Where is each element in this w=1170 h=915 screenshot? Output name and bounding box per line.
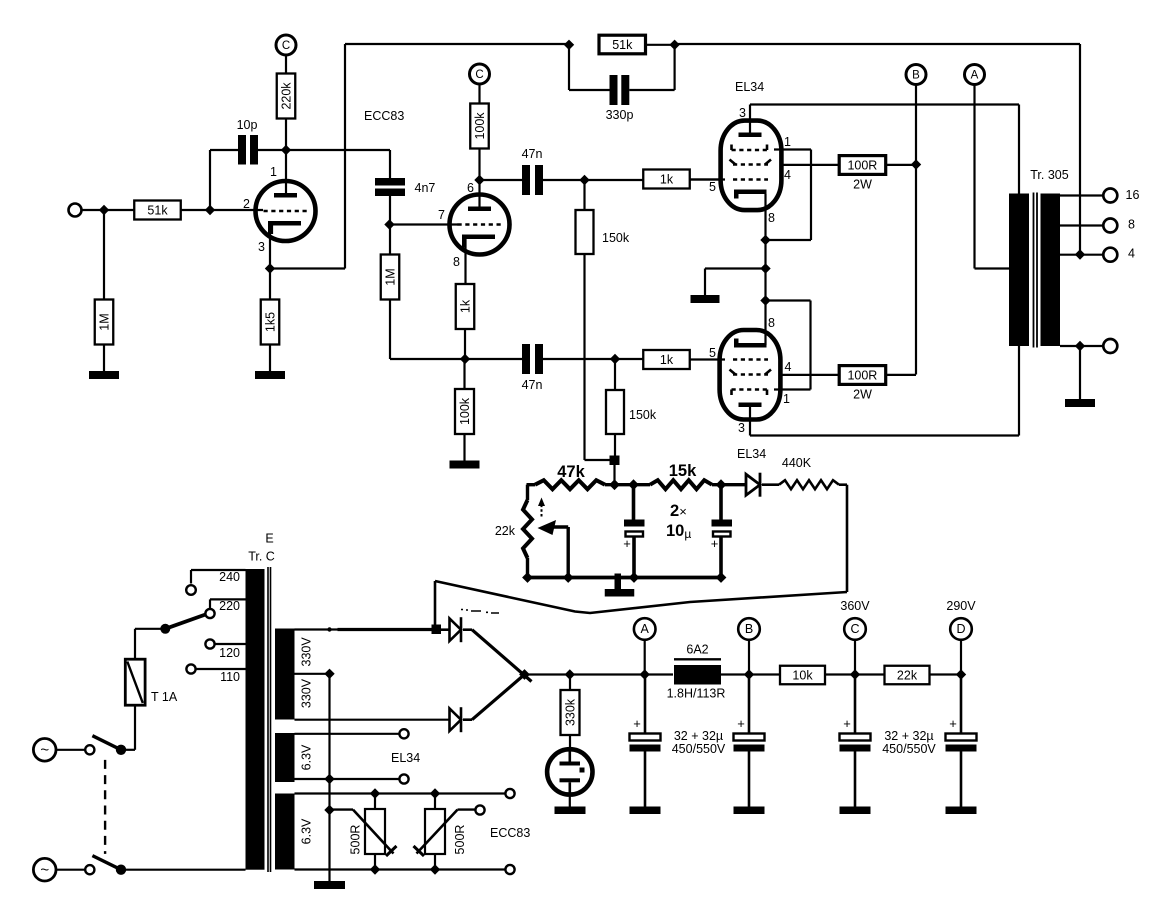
- svg-text:150k: 150k: [602, 231, 630, 245]
- svg-text:8: 8: [1128, 218, 1135, 232]
- svg-text:47k: 47k: [557, 463, 585, 481]
- svg-text:4n7: 4n7: [415, 181, 436, 195]
- svg-text:8: 8: [453, 255, 460, 269]
- svg-text:51k: 51k: [612, 38, 633, 52]
- svg-text:+: +: [711, 536, 719, 551]
- svg-text:+: +: [633, 716, 641, 731]
- svg-text:120: 120: [219, 646, 240, 660]
- svg-text:16: 16: [1126, 188, 1140, 202]
- svg-text:2W: 2W: [853, 388, 872, 402]
- svg-text:450/550V: 450/550V: [882, 742, 936, 756]
- svg-text:1M: 1M: [97, 313, 111, 330]
- svg-text:100k: 100k: [473, 112, 487, 140]
- svg-text:32 + 32µ: 32 + 32µ: [674, 729, 723, 743]
- svg-text:240: 240: [219, 570, 240, 584]
- svg-text:6: 6: [467, 181, 474, 195]
- svg-text:100R: 100R: [847, 368, 877, 382]
- svg-text:500R: 500R: [349, 825, 363, 855]
- svg-text:220: 220: [219, 599, 240, 613]
- svg-text:E: E: [265, 532, 273, 546]
- svg-text:C: C: [850, 622, 859, 636]
- svg-text:330V: 330V: [300, 678, 314, 708]
- svg-text:100R: 100R: [847, 158, 877, 172]
- svg-text:A: A: [971, 70, 979, 82]
- svg-text:~: ~: [40, 861, 49, 878]
- svg-text:1: 1: [270, 165, 277, 179]
- svg-text:D: D: [956, 622, 965, 636]
- svg-text:47n: 47n: [522, 378, 543, 392]
- svg-text:100k: 100k: [458, 397, 472, 425]
- svg-text:15k: 15k: [669, 462, 697, 480]
- svg-text:450/550V: 450/550V: [672, 742, 726, 756]
- svg-text:3: 3: [258, 240, 265, 254]
- svg-text:500R: 500R: [453, 825, 467, 855]
- svg-text:~: ~: [40, 742, 49, 759]
- svg-text:C: C: [282, 40, 290, 52]
- svg-text:4: 4: [1128, 247, 1135, 261]
- svg-text:A: A: [641, 622, 650, 636]
- svg-text:ECC83: ECC83: [364, 109, 404, 123]
- svg-text:1k5: 1k5: [263, 312, 277, 332]
- svg-text:32 + 32µ: 32 + 32µ: [884, 729, 933, 743]
- svg-text:22k: 22k: [897, 668, 918, 682]
- svg-text:22k: 22k: [495, 524, 516, 538]
- svg-text:1k: 1k: [660, 172, 674, 186]
- svg-text:6.3V: 6.3V: [300, 818, 314, 844]
- svg-text:4: 4: [785, 360, 792, 374]
- svg-text:EL34: EL34: [391, 751, 420, 765]
- svg-text:1: 1: [783, 392, 790, 406]
- svg-text:B: B: [745, 622, 753, 636]
- svg-text:290V: 290V: [946, 599, 976, 613]
- svg-text:2W: 2W: [853, 178, 872, 192]
- svg-text:EL34: EL34: [737, 447, 766, 461]
- svg-text:5: 5: [709, 180, 716, 194]
- svg-text:8: 8: [768, 316, 775, 330]
- svg-text:EL34: EL34: [735, 80, 764, 94]
- svg-text:330k: 330k: [563, 698, 577, 726]
- svg-text:1k: 1k: [660, 353, 674, 367]
- svg-text:3: 3: [739, 106, 746, 120]
- svg-text:330p: 330p: [606, 108, 634, 122]
- svg-text:+: +: [949, 716, 957, 731]
- svg-text:+: +: [623, 536, 631, 551]
- svg-text:+: +: [843, 716, 851, 731]
- svg-text:Tr. C: Tr. C: [248, 550, 275, 564]
- svg-text:220k: 220k: [279, 82, 293, 110]
- svg-text:2×: 2×: [670, 502, 687, 520]
- svg-text:150k: 150k: [629, 408, 657, 422]
- svg-text:8: 8: [768, 211, 775, 225]
- svg-text:1: 1: [784, 135, 791, 149]
- svg-text:6A2: 6A2: [686, 643, 708, 657]
- svg-text:C: C: [475, 69, 483, 81]
- svg-text:3: 3: [738, 421, 745, 435]
- svg-text:10µ: 10µ: [666, 522, 691, 541]
- svg-text:360V: 360V: [840, 599, 870, 613]
- svg-text:10p: 10p: [237, 118, 258, 132]
- svg-text:7: 7: [438, 208, 445, 222]
- svg-text:51k: 51k: [147, 203, 168, 217]
- svg-text:330V: 330V: [300, 637, 314, 667]
- svg-text:10k: 10k: [792, 668, 813, 682]
- svg-text:1M: 1M: [383, 268, 397, 285]
- svg-text:ECC83: ECC83: [490, 826, 530, 840]
- svg-text:6.3V: 6.3V: [300, 744, 314, 770]
- svg-text:1.8H/113R: 1.8H/113R: [667, 687, 726, 701]
- svg-text:5: 5: [709, 346, 716, 360]
- svg-text:2: 2: [243, 197, 250, 211]
- svg-text:Tr. 305: Tr. 305: [1030, 168, 1068, 182]
- svg-text:47n: 47n: [522, 147, 543, 161]
- svg-text:+: +: [737, 716, 745, 731]
- svg-text:440K: 440K: [782, 456, 812, 470]
- svg-text:T 1A: T 1A: [151, 690, 178, 704]
- svg-text:B: B: [912, 70, 920, 82]
- svg-text:110: 110: [220, 670, 240, 684]
- svg-text:4: 4: [784, 168, 791, 182]
- svg-text:1k: 1k: [458, 299, 472, 313]
